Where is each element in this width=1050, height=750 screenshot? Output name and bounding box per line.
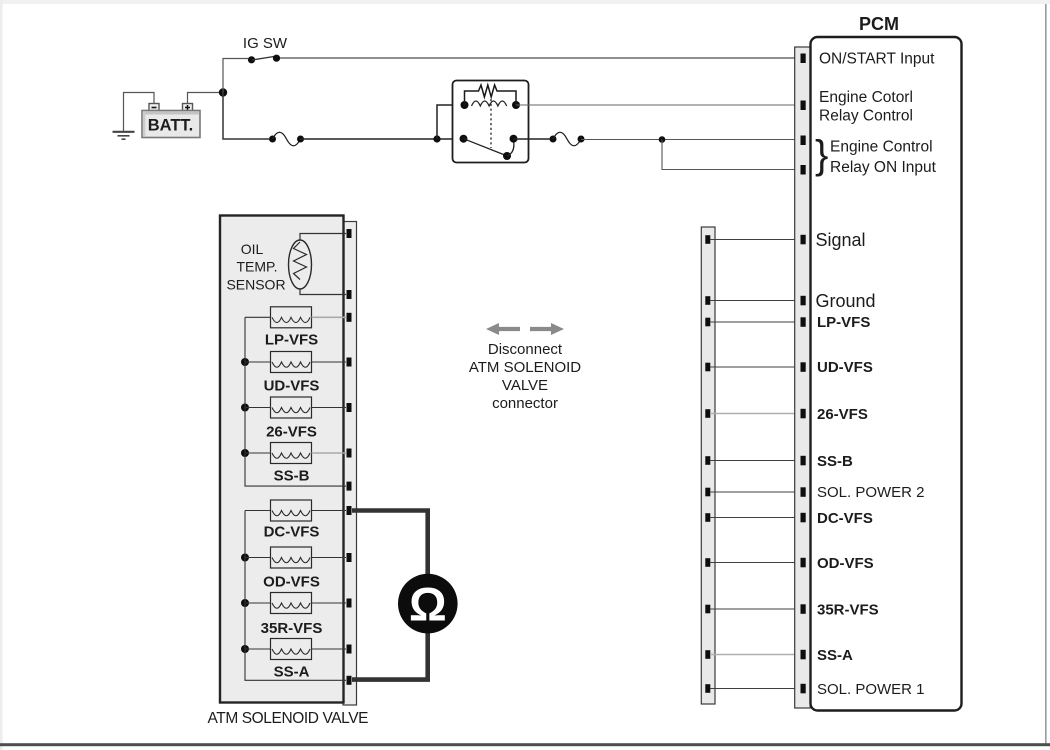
wire sensor bottom to pin xyxy=(300,289,346,295)
node SS-B bus junction xyxy=(241,449,249,457)
svg-text:35R-VFS: 35R-VFS xyxy=(817,602,879,619)
wire fuse F1 to relay xyxy=(301,138,461,140)
wire SS-A harness to PCM (gray) xyxy=(710,654,801,656)
svg-text:DC-VFS: DC-VFS xyxy=(817,510,873,527)
wire ohmmeter thick loop xyxy=(352,511,428,680)
wire DC-VFS left to bus xyxy=(245,510,271,512)
solenoid SS-A xyxy=(271,639,312,681)
page bottom border xyxy=(0,743,1050,746)
node UD-VFS bus junction xyxy=(241,358,249,366)
svg-text:SS-B: SS-B xyxy=(274,468,310,485)
svg-text:OD-VFS: OD-VFS xyxy=(817,555,874,572)
node 26-VFS bus junction xyxy=(241,404,249,412)
svg-text:Disconnect: Disconnect xyxy=(488,341,563,358)
note text xyxy=(469,341,581,412)
svg-text:SOL. POWER 2: SOL. POWER 2 xyxy=(817,484,925,501)
svg-text:VALVE: VALVE xyxy=(502,377,548,394)
wire LP-VFS to pin (gray) xyxy=(312,316,347,318)
wire junction to PCM pin Relay ON Input xyxy=(662,140,800,170)
wire IG SW to PCM pin ON/START xyxy=(280,57,800,59)
svg-text:BATT.: BATT. xyxy=(148,117,194,135)
svg-text:OD-VFS: OD-VFS xyxy=(263,574,320,591)
svg-text:Ground: Ground xyxy=(816,291,876,311)
svg-text:ATM SOLENOID VALVE: ATM SOLENOID VALVE xyxy=(208,710,369,727)
solenoid UD-VFS xyxy=(264,352,320,395)
harness connector pins xyxy=(705,235,710,693)
svg-text:LP-VFS: LP-VFS xyxy=(817,314,870,331)
svg-text:UD-VFS: UD-VFS xyxy=(264,378,320,395)
wire SS-A to pin xyxy=(312,648,347,650)
node OD-VFS bus junction xyxy=(241,554,249,562)
ohmmeter xyxy=(398,574,458,634)
ATM solenoid valve box xyxy=(220,216,344,703)
relay plunger dotted line xyxy=(490,99,492,148)
svg-text:LP-VFS: LP-VFS xyxy=(265,332,318,349)
wire sensor top to pin xyxy=(300,234,346,241)
svg-text:PCM: PCM xyxy=(859,14,899,34)
node 35R-VFS bus junction xyxy=(241,599,249,607)
svg-text:35R-VFS: 35R-VFS xyxy=(261,620,323,637)
svg-text:SS-A: SS-A xyxy=(817,647,853,664)
wire DC-VFS to pin xyxy=(312,510,347,512)
wire relay coil to PCM pin Engine Cotorl Relay Control xyxy=(516,104,800,106)
svg-text:OIL: OIL xyxy=(241,241,264,257)
svg-text:UD-VFS: UD-VFS xyxy=(817,359,873,376)
svg-text:Engine Cotorl: Engine Cotorl xyxy=(819,89,913,106)
solenoid 26-VFS xyxy=(266,397,317,441)
solenoid DC-VFS xyxy=(264,500,320,541)
svg-text:IG SW: IG SW xyxy=(243,35,288,52)
ATM connector strip xyxy=(343,222,357,706)
node relay input junction xyxy=(433,135,440,142)
node relay-on junction xyxy=(659,136,666,143)
solenoid LP-VFS xyxy=(265,307,318,349)
svg-text:ATM SOLENOID: ATM SOLENOID xyxy=(469,359,581,376)
PCM pins xyxy=(801,54,806,694)
label OIL TEMP. SENSOR xyxy=(226,241,285,293)
wire SS-B left to bus xyxy=(245,452,271,454)
wire battery plus to junction xyxy=(188,93,220,105)
relay switch xyxy=(460,135,518,160)
page top border xyxy=(0,0,1050,4)
fuse F2 xyxy=(550,132,585,146)
solenoid SS-B xyxy=(271,443,312,485)
svg-text:26-VFS: 26-VFS xyxy=(266,424,317,441)
svg-text:Ω: Ω xyxy=(409,578,447,631)
fuse F1 xyxy=(269,132,304,146)
wire junction up to IG SW xyxy=(223,59,248,97)
wires harness to PCM xyxy=(710,240,801,689)
arrow right xyxy=(530,323,564,335)
svg-text:SOL. POWER 1: SOL. POWER 1 xyxy=(817,681,925,698)
wire battery minus to ground xyxy=(124,93,155,132)
svg-text:}: } xyxy=(815,133,828,177)
wire upper bus xyxy=(245,317,346,486)
svg-text:SS-B: SS-B xyxy=(817,453,853,470)
harness connector strip xyxy=(701,227,715,704)
resistor in relay xyxy=(465,85,517,105)
wire 35R-VFS left to bus xyxy=(245,602,271,604)
ground xyxy=(113,132,135,139)
svg-text:Relay Control: Relay Control xyxy=(819,108,913,125)
svg-text:Signal: Signal xyxy=(816,230,866,250)
wire 26-VFS to pin xyxy=(312,407,347,409)
solenoid OD-VFS xyxy=(263,547,320,591)
svg-text:DC-VFS: DC-VFS xyxy=(264,524,320,541)
wire 26-VFS left to bus xyxy=(245,407,271,409)
page left border xyxy=(0,0,3,750)
svg-text:SS-A: SS-A xyxy=(274,664,310,681)
switch IG SW xyxy=(248,55,280,64)
wire lower bus xyxy=(245,511,346,681)
wire UD-VFS to pin xyxy=(312,361,347,363)
arrow left xyxy=(486,323,520,335)
PCM box xyxy=(811,37,962,711)
svg-text:SENSOR: SENSOR xyxy=(226,277,285,293)
svg-text:Relay ON Input: Relay ON Input xyxy=(830,159,937,176)
oil temp sensor xyxy=(289,240,312,289)
svg-text:ON/START Input: ON/START Input xyxy=(819,51,935,68)
wire junction up to relay coil xyxy=(437,105,462,139)
wire junction down to fuse F1 xyxy=(223,93,269,140)
node SS-A bus junction xyxy=(241,645,249,653)
relay coil xyxy=(461,101,521,109)
wire 35R-VFS to pin xyxy=(312,602,347,604)
wire SS-A left to bus xyxy=(245,648,271,650)
node battery junction xyxy=(219,88,227,96)
wire UD-VFS left to bus xyxy=(245,361,271,363)
svg-text:Engine Control: Engine Control xyxy=(830,139,933,156)
wire OD-VFS left to bus xyxy=(245,557,271,559)
svg-text:TEMP.: TEMP. xyxy=(237,259,278,275)
wire OD-VFS to pin xyxy=(312,557,347,559)
PCM connector strip xyxy=(795,47,811,708)
relay box xyxy=(453,81,529,163)
battery BATT. xyxy=(142,104,200,138)
wire SS-B to pin (gray) xyxy=(312,452,347,454)
wire relay switch to fuse F2 xyxy=(514,138,551,140)
solenoid 35R-VFS xyxy=(261,593,323,638)
ATM connector pins xyxy=(347,229,352,685)
page right border xyxy=(1045,4,1047,746)
wire LP-VFS left to bus xyxy=(245,316,271,318)
wire 26-VFS harness to PCM (gray) xyxy=(710,413,801,415)
svg-text:connector: connector xyxy=(492,395,558,412)
svg-text:26-VFS: 26-VFS xyxy=(817,406,868,423)
wire fuse F2 to PCM pin Engine Control xyxy=(581,139,800,141)
